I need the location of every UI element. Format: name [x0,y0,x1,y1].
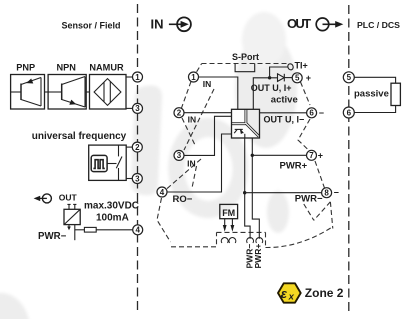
svg-text:PWR−: PWR− [295,194,323,205]
dashed separator Sensor/Field [137,4,139,313]
svg-text:PNP: PNP [16,63,35,73]
zone fence top dashed line [202,63,289,65]
zone fence wedge 6-7 [298,119,310,151]
sensor box PNP [11,75,45,110]
wire terminal 4 RO- to box [167,134,232,192]
svg-text:3: 3 [135,174,140,183]
svg-text:passive: passive [354,89,389,100]
svg-text:OUT U, I+: OUT U, I+ [251,83,292,93]
terminal circle 3 (device) [174,150,184,160]
svg-text:2: 2 [135,143,140,152]
svg-text:ε: ε [281,286,288,301]
wire terminal 3 to box [184,116,232,155]
zone fence right vertical below 8 [330,202,332,229]
zone fence V below 8 left branch [304,204,314,220]
wire terminal 2 to box [184,112,232,114]
svg-text:TI+: TI+ [295,60,308,70]
transducer box [64,209,80,224]
pin T right on transducer [73,204,76,209]
svg-text:active: active [271,95,298,106]
wire terminal 1 to box [199,77,238,109]
svg-text:1: 1 [191,73,196,82]
pin T left on transducer [67,204,70,209]
svg-text:4: 4 [135,226,140,235]
zone fence diagonal 5-6 [301,82,311,105]
sensor box NPN [48,75,86,110]
svg-text:IN: IN [188,115,197,125]
svg-text:4: 4 [160,188,165,197]
transistor inside isolator [234,129,245,138]
socket cup FM right [229,238,236,243]
socket cup FM left [221,238,228,243]
zone fence diagonal 7-8 [315,161,325,188]
svg-text:1: 1 [135,73,140,82]
wire to fuse resistor [75,229,85,231]
isolator box U1 [232,109,260,138]
icon OUT arrow-circle [316,18,343,31]
icon OUT left-arrow circle [34,194,52,203]
FM pin right with arrow [231,219,235,232]
zone fence bottom left horizontal [171,232,217,246]
dashed separator PLC/DCS [348,5,350,313]
zone fence long diagonal right of 2 into 3 [184,89,214,150]
wire box to terminal 6 [259,112,306,114]
diode D1 [278,74,293,82]
svg-text:100mA: 100mA [96,212,129,223]
svg-text:NAMUR: NAMUR [89,63,124,73]
svg-text:IN: IN [187,159,196,169]
wire frequency box to terminal 3 [126,178,132,180]
svg-text:S-Port: S-Port [232,52,259,62]
svg-text:OUT U, I−: OUT U, I− [264,114,305,124]
svg-text:6: 6 [309,109,314,118]
PWR+ riser from box [252,138,259,239]
terminal circle 8 (device) [322,188,332,198]
svg-text:universal frequency: universal frequency [32,131,127,142]
load loop wire bottom [354,106,396,113]
icon IN arrow-circle [169,17,191,31]
terminal circle 1 (field) [133,72,143,82]
connector between NPN and NAMUR [86,91,89,93]
zone fence below terminal 4 [157,198,171,242]
zone fence diagonal into 4 [167,159,202,189]
zone fence notch right step [265,232,267,247]
fuse resistor [84,227,96,232]
right terminal circle 6 [343,107,354,118]
svg-text:5: 5 [295,74,300,83]
junction dot PWR+ [251,154,254,157]
svg-text:+: + [318,150,323,160]
svg-text:−: − [319,108,324,118]
zone fence steep segment [192,166,197,188]
frequency box [89,145,127,180]
transducer pin to PWR- [74,225,76,241]
terminal circle 4 (field) [133,225,143,235]
zone fence diagonal from 2 down-right [182,118,195,145]
svg-text:Zone 2: Zone 2 [305,286,344,300]
FM pin left with arrow [223,219,227,232]
svg-text:Sensor / Field: Sensor / Field [61,21,120,31]
terminal circle 7 (device) [307,150,317,160]
svg-text:3: 3 [135,104,140,113]
load loop wire top [354,77,396,83]
terminal circle 2 (device) [174,108,184,118]
svg-text:FM: FM [222,208,235,218]
svg-text:5: 5 [347,73,352,82]
wire frequency box to terminal 2 [126,146,132,148]
load resistor [391,83,400,105]
svg-text:PWR+: PWR+ [280,161,308,172]
svg-text:PWR−: PWR− [38,231,67,242]
svg-text:8: 8 [324,189,329,198]
connector between PNP and NPN [45,91,49,93]
junction dot TI branch [268,76,271,79]
terminal circle 6 (device) [307,108,317,118]
watermark [0,12,297,319]
PWR- riser from box [245,138,250,239]
svg-text:RO−: RO− [173,194,193,205]
right terminal circle 5 [343,72,354,83]
svg-text:PWR+: PWR+ [253,244,263,269]
svg-text:IN: IN [151,17,164,32]
wire NAMUR to terminal 1 [126,76,133,78]
svg-text:+: + [306,73,311,83]
terminal circle 4 (device) [157,187,167,197]
S-Port bracket [235,63,255,71]
terminal circle 3 (field) [133,103,143,113]
socket cup PWR- [247,238,254,243]
svg-text:NPN: NPN [56,63,76,73]
svg-text:PLC / DCS: PLC / DCS [357,20,400,30]
TI+ curl [287,63,294,71]
wire box to diode junction [253,78,277,110]
socket cup PWR+ [256,238,263,243]
svg-text:OUT: OUT [287,16,311,31]
svg-text:OUT: OUT [59,192,78,202]
svg-text:x: x [288,291,295,302]
svg-text:max.30VDC: max.30VDC [84,201,139,212]
terminal circle 3 (field, frequency) [132,174,142,184]
wire to terminal 8 [245,192,322,194]
wire fuse to terminal 4 [96,229,133,231]
TI+ pigtail wire [270,67,288,78]
zone fence diagonal 1-2 [182,82,192,109]
terminal circle 2 (field) [132,142,142,152]
svg-text:−: − [334,188,339,198]
Ex hexagon logo [278,283,301,302]
FM box [220,204,238,218]
terminal circle 1 (device) [189,72,199,82]
svg-text:2: 2 [177,109,182,118]
svg-text:7: 7 [309,151,314,160]
wire to terminal 7 [252,154,306,156]
transducer pin with down arrow [67,225,71,231]
zone fence corner above terminal 1 [197,64,202,72]
svg-text:3: 3 [177,151,182,160]
svg-text:IN: IN [203,79,212,89]
zone fence V below 8 right branch [314,202,331,221]
terminal circle 5 (device) [292,73,302,83]
junction dot PWR- [243,191,246,194]
sensor box NAMUR [90,75,127,110]
zone fence bottom right curve [266,227,334,248]
svg-text:6: 6 [347,108,352,117]
zone fence notch across pins [217,231,266,233]
wire NAMUR to terminal 3 [126,107,133,109]
